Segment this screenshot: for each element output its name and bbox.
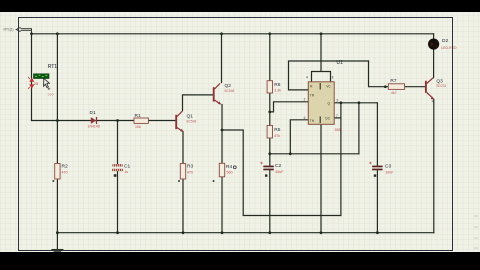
wire: R5 down to C2 (269, 138, 271, 233)
svg-text:TH: TH (310, 119, 315, 123)
svg-text:2: 2 (304, 98, 306, 102)
sheet border frame (19, 18, 453, 251)
svg-text:Q: Q (328, 101, 331, 105)
svg-text:10nF: 10nF (385, 170, 394, 174)
svg-text:BC548: BC548 (225, 89, 235, 93)
resistor R1 (134, 118, 148, 123)
svg-text:3.3k: 3.3k (274, 89, 281, 93)
wire: junction stub to TR pin riser (270, 102, 309, 112)
wire: ground rail (57, 232, 433, 234)
svg-text:4k7: 4k7 (391, 91, 397, 95)
svg-text:TR: TR (310, 93, 315, 97)
wire: RT1 column from rail to signal row (56, 34, 58, 121)
svg-text:Q1: Q1 (187, 113, 194, 119)
wire: TH/CV net horizontal (270, 153, 359, 155)
wire: Q2 emitter column through R4 (221, 105, 223, 233)
capacitor C2 (260, 162, 274, 177)
svg-text:560: 560 (227, 171, 233, 175)
svg-text:RT1: RT1 (48, 64, 57, 70)
right margin ticks (474, 216, 478, 248)
svg-text:BC548: BC548 (187, 120, 197, 124)
svg-text:47k: 47k (274, 134, 280, 138)
wire: terminal to rail double lead (21, 29, 32, 34)
transistor Q3 (426, 78, 435, 103)
resistor R5 (267, 126, 272, 139)
svg-text:Q2: Q2 (225, 83, 232, 89)
svg-text:R5: R5 (274, 127, 280, 133)
wire: DC pin stub and long drop (334, 103, 341, 216)
wire: ground stub (56, 233, 58, 249)
wire: riser joining Q line to TH net (358, 103, 360, 154)
resistor R4 (219, 163, 224, 177)
svg-text:VC: VC (326, 85, 331, 89)
svg-text:C3: C3 (385, 163, 391, 169)
wire: Q1 collector riser and link to Q2 base (183, 95, 214, 111)
svg-text:3: 3 (336, 99, 338, 103)
svg-text:R1: R1 (135, 113, 141, 119)
wire: U1 ground pin to ground rail (320, 124, 322, 232)
wire: emitter node to DC loop (222, 130, 341, 216)
svg-text:RT1(1): RT1(1) (4, 28, 14, 32)
svg-text:LED-RED: LED-RED (441, 46, 457, 50)
capacitor C3 (369, 162, 383, 177)
svg-text:R7: R7 (390, 78, 396, 84)
resistor R2 (55, 164, 60, 180)
svg-text:C1: C1 (124, 163, 130, 169)
wire: LED to Q3 collector (433, 34, 435, 78)
svg-text:DC: DC (325, 117, 330, 121)
svg-text:555: 555 (335, 128, 341, 132)
svg-text:C2: C2 (275, 163, 281, 169)
diode D1 (91, 117, 97, 124)
wire: left vertical from terminal bend down to D1 row (31, 34, 33, 121)
ground (51, 250, 63, 252)
wire: Q2 collector riser to rail (221, 34, 223, 83)
wire: Q1 emitter to R3 (182, 132, 184, 233)
wire: U1 top pins tie and riser to rail (312, 34, 331, 82)
wire: Q3 emitter drop to ground rail (433, 99, 435, 232)
svg-text:1u: 1u (124, 170, 128, 174)
svg-text:4: 4 (306, 76, 308, 80)
resistor R7 (388, 84, 404, 90)
svg-text:R2: R2 (62, 164, 68, 170)
wire: feed down to R7 (369, 61, 389, 87)
input terminal (16, 27, 20, 31)
resistor R6 (267, 81, 272, 93)
wire: signal row D1/R1 to Q1 base (32, 120, 176, 122)
thermistor RT1 (28, 74, 50, 90)
wire: CV pin riser (290, 120, 308, 154)
transistor Q2 (214, 83, 221, 104)
wire: top supply rail (32, 33, 434, 35)
wire: Q output line right of U1 (334, 102, 377, 104)
wire: TR pin upper feed (289, 61, 369, 90)
transistor Q1 (176, 111, 183, 132)
svg-text:45uF: 45uF (275, 170, 284, 174)
svg-text:25: 25 (34, 81, 39, 86)
svg-text:R6: R6 (274, 82, 280, 88)
svg-text:470: 470 (62, 170, 68, 174)
capacitor C1 (112, 164, 123, 177)
555 timer U1 (308, 82, 334, 125)
wire: R2 column (56, 121, 58, 233)
LED D2 (428, 39, 439, 50)
wire: R6 column from rail (269, 34, 271, 81)
svg-text:1N4148: 1N4148 (88, 125, 100, 129)
wire: C3 column (376, 103, 378, 233)
svg-text:R3: R3 (187, 164, 193, 170)
wire: R6 to junction (269, 93, 271, 126)
svg-text:7: 7 (336, 114, 338, 118)
svg-text:6: 6 (304, 116, 306, 120)
wire: R7 to Q3 base (405, 86, 426, 88)
svg-text:???: ??? (48, 93, 54, 97)
svg-text:D2: D2 (442, 38, 448, 44)
svg-text:D1: D1 (90, 110, 96, 116)
svg-text:R4: R4 (226, 164, 232, 170)
svg-text:8: 8 (332, 76, 334, 80)
svg-text:U1: U1 (336, 60, 343, 66)
resistor R3 (180, 164, 185, 180)
svg-text:470: 470 (187, 170, 193, 174)
wire: C1 column (117, 121, 119, 233)
pin numbers (304, 76, 339, 120)
svg-text:10k: 10k (135, 125, 141, 129)
svg-text:BD233: BD233 (436, 84, 446, 88)
